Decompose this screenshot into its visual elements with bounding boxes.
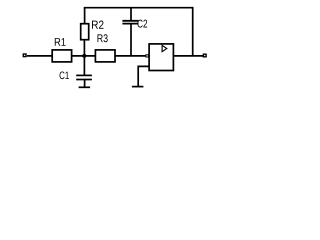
label R3 [98,34,108,42]
capacitor C1 plate 1 [76,74,92,76]
wire R1 to R3 [72,55,96,57]
input terminal [23,54,26,57]
resistor R1 [52,50,71,62]
label R1 [55,38,66,46]
wire R2 top stub [84,8,86,24]
ground bar (C1) [79,86,91,88]
resistor R2 [81,24,89,40]
capacitor C2 plate 1 [122,20,138,22]
resistor R3 [95,50,115,62]
op-amp triangle glyph [162,45,167,51]
output terminal [203,54,206,57]
wire C1 bottom stub [84,80,86,88]
wire C2 bottom stub [130,24,132,56]
wire C2 top stub [130,8,132,21]
op-amp input pin square [145,54,148,57]
node A junction dot [82,54,86,58]
wire top feedback horizontal [84,7,193,9]
capacitor C2 plate 2 [122,23,138,25]
op-amp U1 body [149,44,173,71]
label C2 [138,20,148,28]
ground bar (op-amp input) [132,86,144,88]
wire node A vertical (R2 bottom through node to C1 top) [83,40,85,75]
capacitor C1 plate 2 [76,79,92,81]
wire input to R1 [27,55,52,57]
wire R3 to op-amp [115,55,146,57]
label C1 [60,71,69,79]
wire feedback vertical to output [192,7,194,56]
label R2 [92,21,104,29]
wire op-amp lower input to ground [138,66,149,86]
wire op-amp output [173,55,203,57]
